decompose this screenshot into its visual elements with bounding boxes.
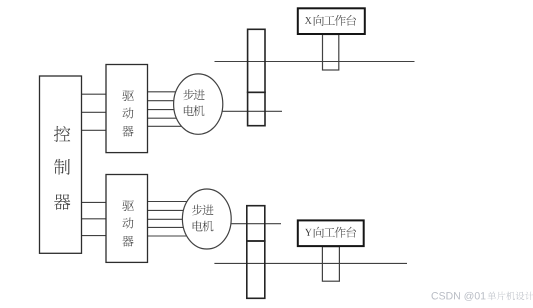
label Y (Y worktable) — [305, 229, 312, 236]
wire driver2-motor2 2 — [148, 209, 190, 211]
Y slide block upper — [247, 206, 265, 241]
label 台 (Y worktable) — [346, 227, 356, 238]
label 驱 (driver1) — [122, 90, 134, 101]
label 进 (motor1) — [194, 89, 205, 100]
label 工 (Y worktable) — [324, 228, 335, 237]
wire driver1-motor1 3 — [148, 109, 181, 111]
wire driver2-motor2 4 — [148, 226, 190, 228]
motor1 ellipse (stepper motor) — [174, 74, 223, 134]
wire driver2-motor2 5 — [148, 235, 195, 237]
X worktable box — [298, 8, 365, 34]
wire driver1-motor1 1 — [148, 91, 187, 93]
wire driver1-motor1 2 — [148, 100, 181, 102]
wire motor1 to X nut — [215, 110, 282, 112]
wire controller-driver1 b — [82, 111, 107, 113]
label 作 (Y worktable) — [335, 227, 346, 238]
label 制 (controller) — [54, 159, 70, 175]
wire controller-driver1 a — [82, 93, 107, 95]
label 电 (motor1) — [184, 105, 194, 116]
driver1 box — [106, 65, 148, 153]
wire driver1-motor1 4 — [148, 117, 181, 119]
X axis rail line — [215, 61, 415, 63]
wire driver1-motor1 5 — [148, 125, 187, 127]
wire driver2-motor2 3 — [148, 218, 189, 220]
label 器 (controller) — [54, 194, 70, 210]
Y slide block lower — [247, 241, 265, 298]
X slide block upper — [248, 29, 265, 92]
label 动 (driver2) — [122, 218, 133, 229]
motor2 ellipse (stepper motor) — [182, 189, 231, 249]
Y axis rail line — [214, 262, 407, 264]
label 机 (motor2) — [202, 221, 213, 232]
driver2 box — [106, 175, 148, 263]
label 向 (Y worktable) — [314, 227, 324, 238]
Y worktable stem — [322, 247, 339, 282]
X worktable stem — [323, 35, 339, 71]
wire controller-driver2 b — [82, 218, 107, 220]
Y worktable box — [298, 220, 364, 246]
label 步 (motor2) — [192, 204, 203, 215]
label 器 (driver1) — [122, 126, 133, 137]
label 步 (motor1) — [183, 89, 194, 100]
watermark CSDN @01单片机设计 — [432, 292, 533, 301]
label 作 (X worktable) — [335, 15, 346, 26]
label 工 (X worktable) — [324, 16, 335, 25]
X slide block lower — [248, 92, 265, 125]
wire driver2-motor2 1 — [148, 201, 195, 203]
label 动 (driver1) — [122, 108, 133, 119]
label 向 (X worktable) — [314, 15, 324, 26]
wire motor2 to Y nut — [222, 223, 281, 225]
wire controller-driver2 c — [82, 235, 107, 237]
wire controller-driver2 a — [82, 201, 107, 203]
label 器 (driver2) — [122, 236, 133, 247]
controller box — [40, 76, 82, 253]
label 控 (controller) — [54, 126, 70, 142]
label 驱 (driver2) — [122, 200, 134, 211]
label 进 (motor2) — [203, 205, 214, 216]
label 台 (X worktable) — [346, 15, 356, 26]
label X (X worktable) — [305, 17, 312, 24]
wire controller-driver1 c — [82, 129, 107, 131]
label 机 (motor1) — [193, 105, 204, 116]
label 电 (motor2) — [193, 221, 203, 232]
